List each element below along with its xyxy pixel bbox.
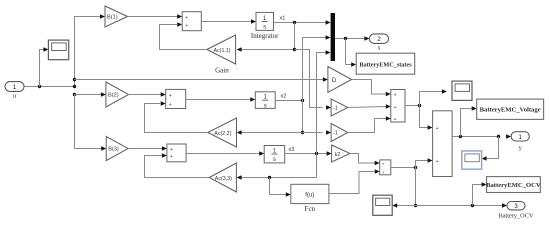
wire -1a to sum4 (348, 107, 386, 108)
wire u main (24, 86, 75, 88)
wire x1 down to Ac11 (241, 23, 294, 50)
wire x3 up to mux (317, 53, 326, 154)
wire B1 to sum1 (128, 16, 178, 18)
sum block Sum5 (380, 160, 391, 175)
arrow into mux in1 (326, 20, 331, 25)
svg-text:x1: x1 (280, 16, 286, 22)
integrator U1 (256, 12, 274, 30)
gain Ac(3,3) (209, 163, 236, 192)
node u-D branch (73, 78, 76, 81)
wire -1b to sum4 (348, 119, 386, 133)
wire sum3 to integrator3 (186, 153, 260, 155)
arrow into sum4 c (386, 116, 391, 121)
arrow into scope4 (482, 156, 487, 161)
svg-text:+: + (170, 147, 173, 153)
svg-text:+: + (382, 170, 385, 175)
sum block Sum2 (166, 89, 186, 108)
arrow into sum3 b (162, 153, 167, 158)
arrow into integrator1 (251, 19, 256, 24)
arrow into sum5 a (375, 161, 380, 166)
wire u bus vertical (75, 17, 101, 87)
svg-text:k2: k2 (335, 152, 341, 158)
svg-text:+: + (382, 162, 385, 167)
output port 3 (Battery_OCV) (507, 202, 525, 211)
arrow into port3 (502, 203, 507, 208)
svg-text:-1: -1 (333, 131, 338, 137)
svg-text:1: 1 (13, 84, 17, 91)
wire x3 to fcn (270, 178, 287, 195)
svg-text:+: + (436, 126, 439, 132)
arrow into -1a (326, 105, 331, 110)
svg-text:BatteryEMC_OCV: BatteryEMC_OCV (486, 182, 541, 189)
svg-text:+: + (436, 159, 439, 165)
arrow into sum1 b (177, 22, 182, 27)
wire x3 down to Ac33 (241, 154, 316, 178)
svg-text:x3: x3 (289, 147, 295, 153)
arrow into -1b (326, 130, 331, 135)
arrow into mux in3 (326, 50, 331, 55)
svg-text:Gain: Gain (215, 66, 229, 74)
node x3 junction (315, 152, 318, 155)
svg-text:BatteryEMC_states: BatteryEMC_states (359, 62, 412, 69)
gain Ac(1,1) (207, 35, 236, 64)
scope Scope1 (48, 40, 68, 60)
arrow into port x (364, 36, 369, 41)
node ocv block junction (471, 204, 474, 207)
node y junction (497, 135, 500, 138)
svg-text:+: + (185, 15, 188, 21)
wire sum5 out (391, 167, 416, 169)
node x1-feedback junction (293, 48, 296, 51)
wire to scope2 (420, 92, 443, 106)
svg-text:+: + (394, 92, 397, 98)
arrow into sum4 b (386, 104, 391, 109)
wire Ac11 feedback to sum1 (160, 25, 207, 50)
scope Scope3 (373, 195, 392, 215)
sum block Sum4 (391, 90, 405, 123)
sum block Sum3 (167, 144, 186, 162)
node x3-fcn junction (268, 176, 271, 179)
svg-text:s: s (264, 103, 267, 109)
svg-text:Battery_OCV: Battery_OCV (499, 212, 534, 219)
svg-text:+: + (394, 117, 397, 123)
output port 1 (y) (511, 132, 529, 141)
svg-text:D: D (332, 78, 337, 84)
svg-text:B(1): B(1) (107, 15, 118, 21)
wire sum5 down to ocv line (415, 168, 417, 206)
wire x2 to -1b (303, 132, 323, 134)
arrow into scope2 (442, 89, 447, 94)
wire u to scope1 (40, 50, 45, 87)
arrow into scope1 (43, 47, 48, 52)
gain D (328, 67, 352, 93)
svg-text:BatteryEMC_Voltage: BatteryEMC_Voltage (480, 107, 541, 114)
arrow into scope3 (392, 203, 397, 208)
wire add out (452, 136, 499, 138)
wire to scope3 (left) (397, 205, 416, 207)
block BatteryEMC_Voltage (477, 99, 544, 119)
arrow into D (323, 77, 328, 82)
gain -1 b (331, 124, 348, 142)
block BatteryEMC_OCV (486, 177, 541, 193)
wire k2 to sum5 (350, 154, 375, 164)
gain k2 (332, 145, 350, 162)
arrow into Ac11 (237, 47, 242, 52)
gain B(2) (106, 82, 129, 107)
wire u to B(3) (75, 95, 102, 149)
wire x2 up to mux (303, 38, 326, 101)
wire up to ocv block (473, 185, 483, 206)
wire fcn out to sum5 (329, 172, 374, 194)
mux bar (331, 13, 335, 61)
arrow into Ac22 (237, 130, 242, 135)
wire sum5 to add in2 (416, 161, 429, 168)
wire ocv line right (416, 205, 503, 207)
wire sum1 to integrator (201, 21, 251, 23)
svg-text:Ac(1,1): Ac(1,1) (214, 48, 231, 54)
svg-text:-1: -1 (333, 106, 338, 112)
arrow into states (351, 62, 356, 67)
arrow into integrator2 (250, 97, 255, 102)
arrow into sum1 a (177, 14, 182, 19)
node x2 feedback junction (301, 131, 304, 134)
svg-text:+: + (169, 102, 172, 108)
node x1 junction (293, 21, 296, 24)
gain -1 a (331, 99, 348, 116)
svg-text:Integrator: Integrator (251, 32, 279, 40)
arrow into ocv block (482, 182, 487, 187)
scope Scope4 selected (462, 151, 482, 169)
svg-text:+: + (394, 105, 397, 111)
node sum4 out junction (418, 104, 421, 107)
svg-text:Fcn: Fcn (305, 205, 316, 213)
wire Ac22 feedback to sum2 (145, 104, 208, 133)
node x2 junction (301, 99, 304, 102)
wire mux out (335, 38, 366, 40)
arrow into fcn (286, 192, 291, 197)
node u line end (73, 85, 76, 88)
block BatteryEMC_states (356, 53, 415, 74)
wire x2 to Ac22 (241, 132, 302, 134)
wire Ac33 feedback to sum3 (145, 156, 210, 178)
wire sum4 out (405, 105, 420, 107)
node add out junction (459, 135, 462, 138)
wire x3 out (285, 153, 327, 155)
gain Ac(2,2) (208, 118, 237, 147)
wire x2 out (275, 100, 302, 102)
arrow into integrator3 (259, 151, 264, 156)
arrow into sum2 b (161, 101, 166, 106)
svg-text:s: s (263, 25, 266, 31)
node sum5 out junction (414, 166, 417, 169)
wire B3 to sum3 (128, 148, 162, 150)
arrow into add b (428, 158, 433, 163)
fcn block f(u) (291, 184, 329, 203)
gain B(3) (106, 136, 128, 160)
arrow into sum2 a (161, 92, 166, 97)
svg-text:1: 1 (518, 134, 522, 141)
arrow into add a (428, 125, 433, 130)
output port 2 (x) (369, 34, 388, 44)
wire x1 out (274, 22, 327, 24)
wire x2 down (302, 101, 304, 133)
svg-text:B(2): B(2) (108, 93, 119, 99)
node u-scope junction (38, 85, 41, 88)
wire B2 to sum2 (129, 94, 162, 96)
wire mux to states block (346, 39, 352, 65)
node u-B2 branch (73, 93, 76, 96)
svg-text:2: 2 (377, 36, 381, 43)
arrow into sum3 a (162, 146, 167, 151)
arrow into sum4 a (386, 92, 391, 97)
node ocv line junction (414, 204, 417, 207)
svg-text:B(3): B(3) (108, 147, 119, 153)
wire sum2 to integrator2 (186, 99, 251, 101)
svg-text:x2: x2 (281, 94, 287, 100)
sum block Sum1 (182, 12, 201, 31)
arrow into B2 (101, 92, 106, 97)
svg-text:s: s (273, 157, 276, 163)
svg-text:Ac(2,2): Ac(2,2) (214, 131, 231, 137)
arrow into k2 (327, 151, 332, 156)
wire to voltage block (461, 109, 472, 137)
svg-text:f(u): f(u) (305, 192, 314, 198)
svg-text:+: + (170, 154, 173, 160)
arrow into mux in2 (326, 35, 331, 40)
svg-text:+: + (169, 93, 172, 99)
svg-text:Ac(3,3): Ac(3,3) (215, 176, 232, 182)
wire y to scope4 (486, 137, 498, 159)
arrow into Ac33 (237, 175, 242, 180)
gain B(1) (105, 6, 128, 27)
wire sum4 to add in1 (420, 106, 429, 128)
arrow into sum5 b (375, 169, 380, 174)
wire D to sum4 (352, 80, 387, 95)
node mux out junction (344, 37, 347, 40)
arrow into B1 (100, 14, 105, 19)
arrow into voltage block (472, 106, 477, 111)
svg-text:+: + (185, 23, 188, 29)
integrator U2 (255, 92, 275, 110)
arrow into port1 (506, 134, 511, 139)
add block (big) (433, 111, 453, 177)
wire u to B(2) (75, 94, 102, 96)
input port 1 (u) (5, 82, 24, 92)
arrow into B3 (101, 146, 106, 151)
wire x1 to -1a (295, 50, 323, 108)
integrator U3 (264, 146, 285, 164)
scope Scope2 (452, 81, 472, 100)
wire u to D gain (75, 79, 324, 81)
